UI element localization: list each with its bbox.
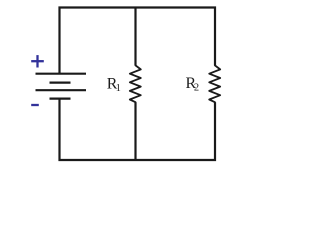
svg-text:1: 1 [116,83,121,94]
svg-text:2: 2 [194,83,199,94]
